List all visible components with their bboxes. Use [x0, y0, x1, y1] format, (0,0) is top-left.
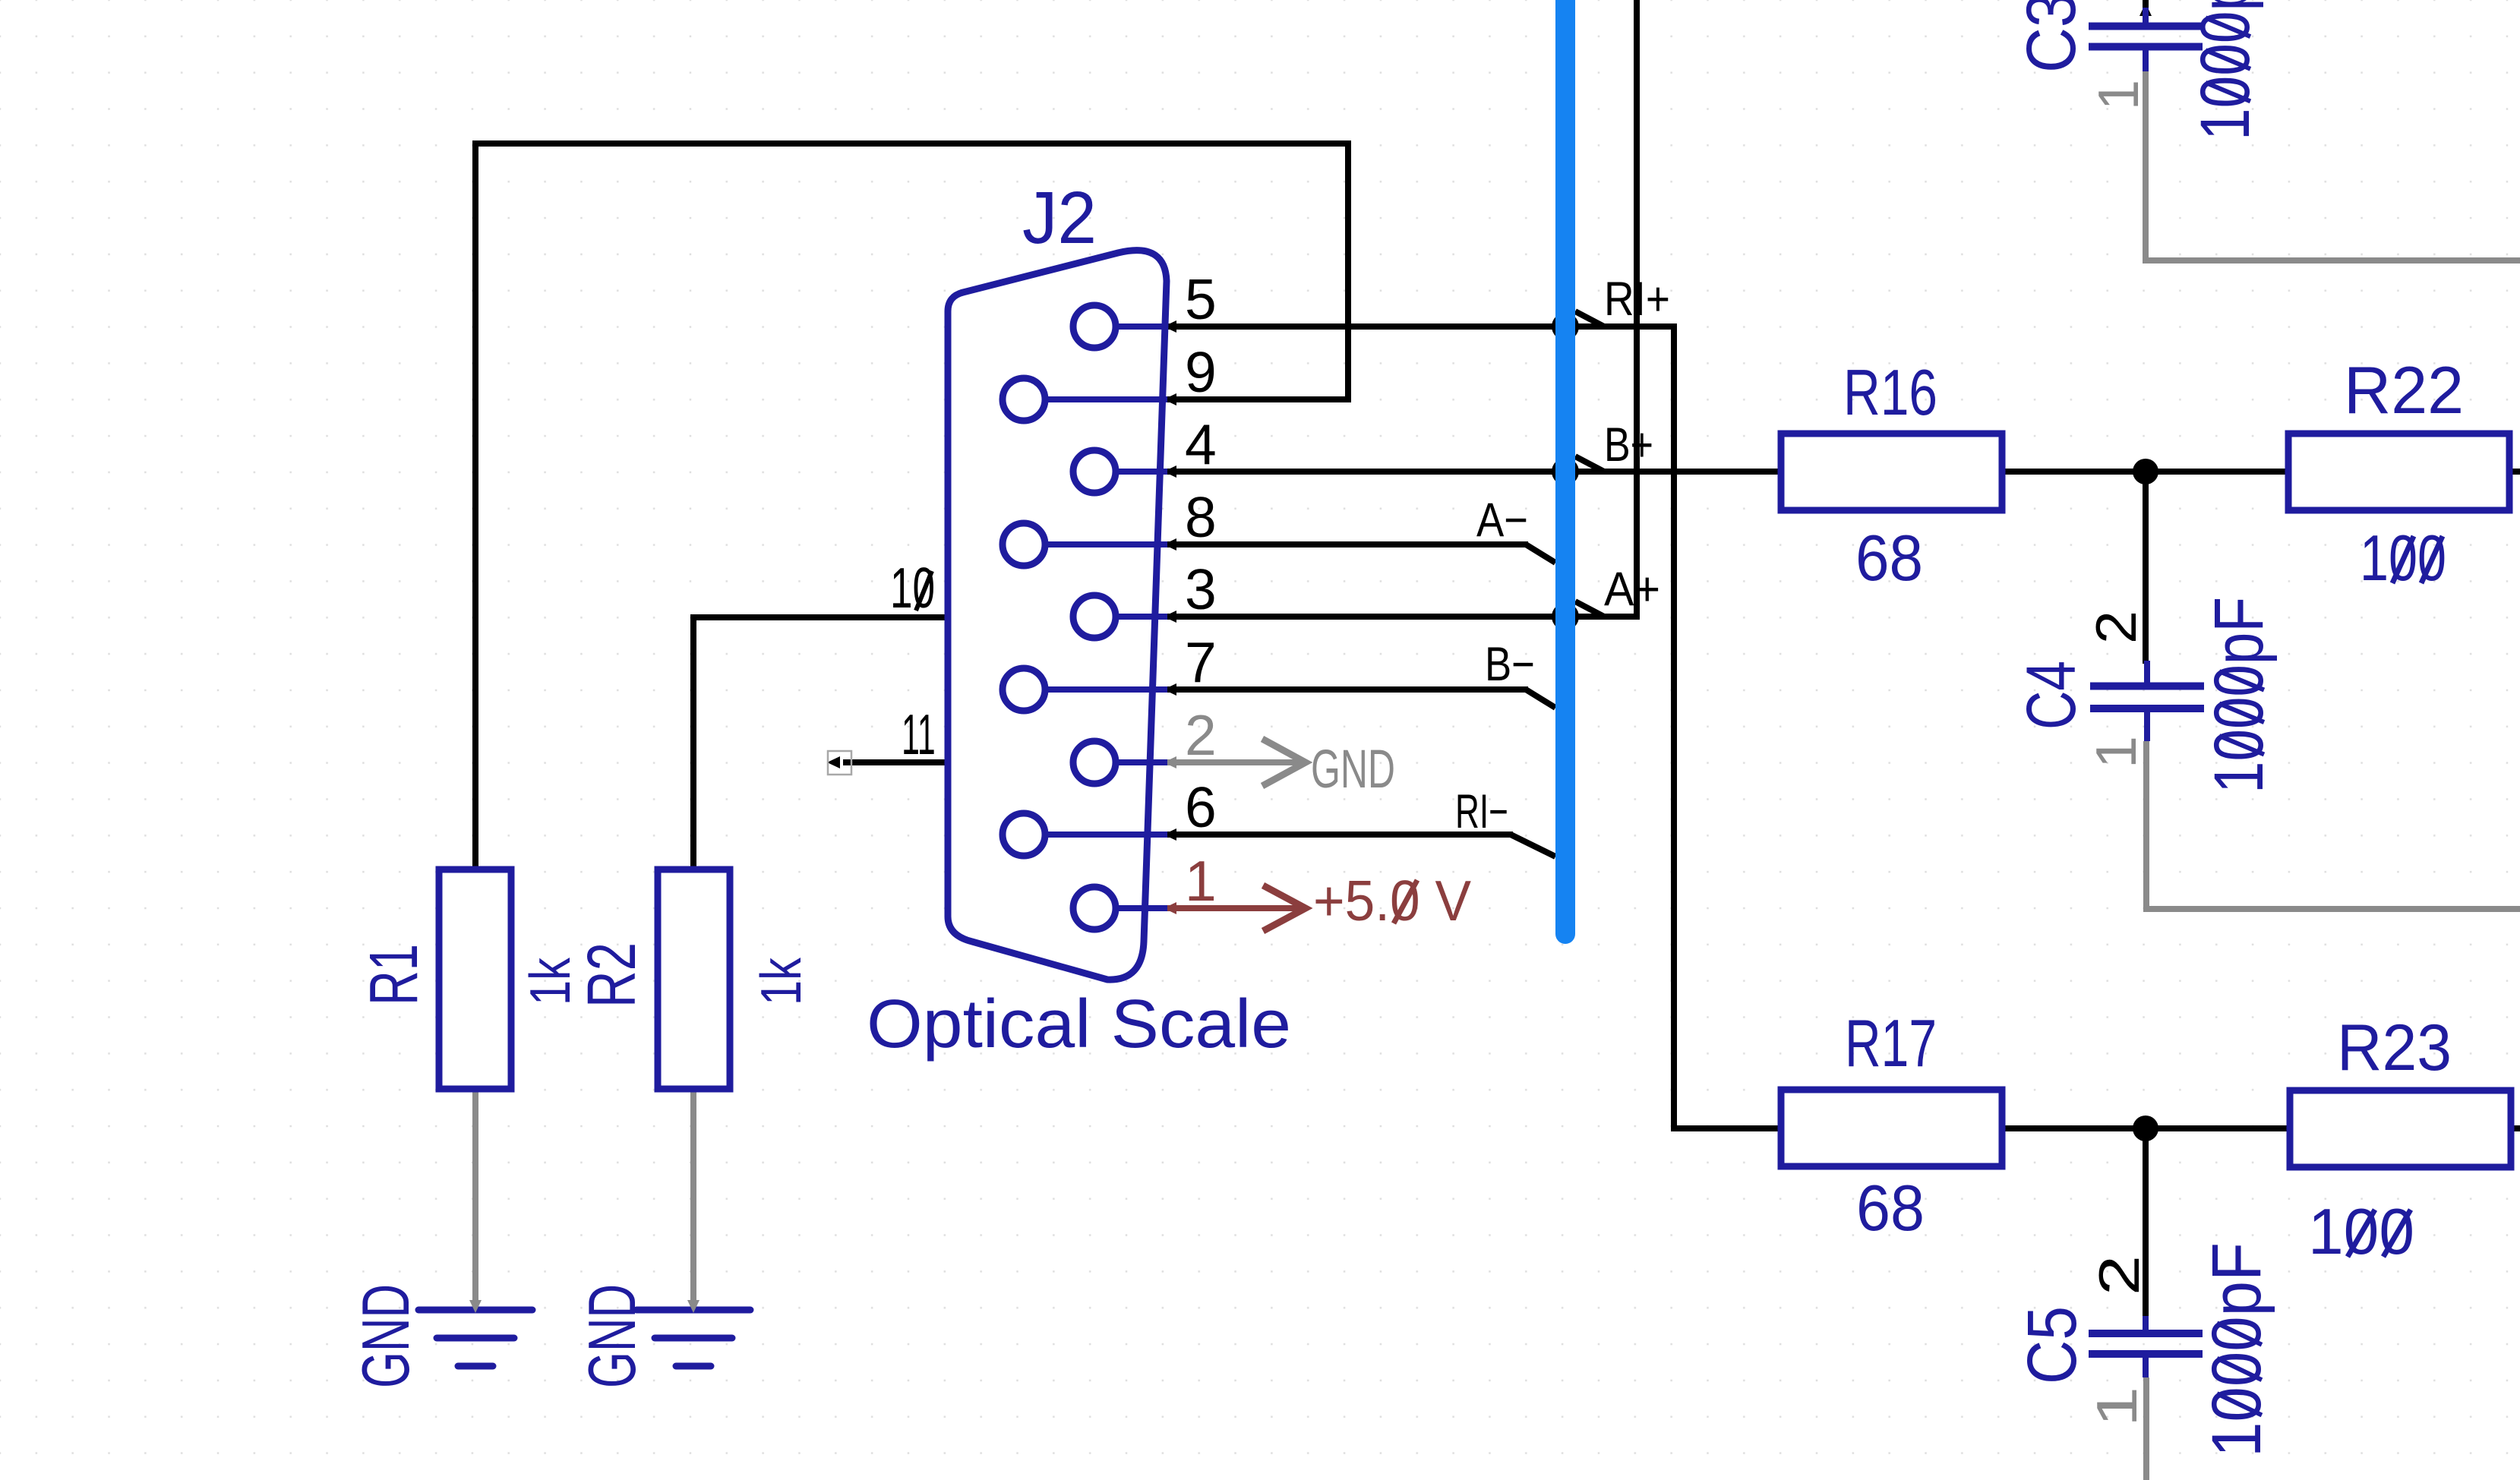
svg-text:B+: B+ [1604, 418, 1653, 472]
svg-text:C4: C4 [2013, 661, 2090, 730]
wire pin 10 to R2 [690, 614, 948, 873]
ground GND symbol under R2 [636, 1300, 750, 1366]
J2 pin 11 number [902, 703, 936, 766]
svg-text:1: 1 [2085, 736, 2149, 768]
J2 pin 3 number [1185, 557, 1217, 621]
no-connect square pin 11 [828, 751, 851, 775]
J2 pin 9 circle and lead [1003, 378, 1167, 421]
C4 pin 1 number [2085, 736, 2149, 768]
resistor R23 [2290, 1090, 2511, 1167]
svg-text:R17: R17 [1845, 1007, 1937, 1081]
resistor R16 [1781, 434, 2002, 510]
J2 pin 4 circle and lead [1073, 450, 1167, 493]
bus entry A- [1526, 544, 1555, 563]
GND label (R1) [349, 1284, 423, 1388]
wire C5 pin1 down (gray) [2143, 1377, 2149, 1480]
svg-text:9: 9 [1185, 340, 1217, 404]
svg-text:B−: B− [1485, 638, 1535, 691]
svg-text:R2: R2 [573, 942, 649, 1008]
net label B- [1485, 638, 1535, 691]
R2 refdes label [573, 942, 649, 1008]
resistor R17 [1781, 1090, 2002, 1166]
svg-text:GND: GND [1311, 739, 1395, 800]
R23 value 100 [2308, 1196, 2414, 1268]
svg-text:6: 6 [1185, 775, 1217, 839]
J2 pin 1 number [1185, 849, 1217, 913]
svg-text:C3: C3 [2012, 0, 2090, 73]
svg-text:R1: R1 [356, 944, 431, 1005]
GND label (R2) [575, 1284, 649, 1388]
R17 value 68 [1856, 1172, 1925, 1244]
svg-text:C5: C5 [2013, 1306, 2091, 1384]
C5 pin 1 number [2086, 1387, 2149, 1427]
bus entry B- [1526, 690, 1555, 708]
net label B+ [1604, 418, 1653, 472]
+5.0V flag label [1313, 869, 1471, 932]
svg-text:1: 1 [2086, 1387, 2149, 1427]
wire pin 7 to bus (B-) [1164, 683, 1528, 696]
net label A+ [1604, 562, 1660, 615]
C5 refdes label [2013, 1306, 2091, 1384]
capacitor C4 [2090, 661, 2204, 741]
bus entry A+ [1575, 601, 1604, 617]
wire pin 11 stub [827, 756, 948, 768]
resistor R22 [2288, 434, 2509, 510]
GND flag arrow [1262, 739, 1306, 786]
resistor R1 [439, 869, 511, 1089]
wire pin 6 to bus (RI-) [1164, 828, 1513, 841]
svg-text:2: 2 [1185, 703, 1217, 767]
svg-text:GND: GND [575, 1284, 649, 1388]
svg-text:J2: J2 [1022, 177, 1097, 259]
J2 pin 7 number [1185, 630, 1217, 694]
svg-text:2: 2 [2088, 1255, 2152, 1295]
node RI+ junction on bus [1552, 313, 1579, 340]
+5.0V flag arrow [1263, 885, 1306, 931]
C5 pin 2 number [2088, 1255, 2152, 1295]
svg-text:Optical Scale: Optical Scale [867, 985, 1291, 1062]
wire pin 9 to corner [1164, 393, 1351, 406]
J2 pin 2 circle and lead [1073, 741, 1167, 784]
J2 refdes label [1022, 177, 1097, 259]
node junction R17/R23/C5 [2133, 1116, 2158, 1141]
svg-text:R22: R22 [2344, 353, 2464, 428]
svg-text:1: 1 [2086, 80, 2151, 110]
wire B+ bus to R16 [1565, 469, 1781, 475]
svg-text:A−: A− [1476, 494, 1528, 547]
R22 value 100 [2360, 522, 2446, 595]
C4 pin 2 number [2085, 611, 2149, 644]
C4 value 1000pF [2199, 597, 2277, 794]
net label RI- [1455, 784, 1508, 838]
wire C3 pin1 to right edge (gray) [2146, 71, 2520, 260]
wire pin 5 to bus (RI+) [1164, 320, 1565, 333]
wire R2 to GND (gray) [690, 1089, 696, 1308]
svg-text:7: 7 [1185, 630, 1217, 694]
capacitor C3 [2089, 8, 2203, 71]
C5 value 1000pF [2196, 1242, 2275, 1457]
svg-text:8: 8 [1185, 485, 1217, 549]
GND flag label [1311, 739, 1395, 800]
R22 refdes label [2344, 353, 2464, 428]
J2 pin 5 circle and lead [1073, 305, 1167, 348]
svg-text:GND: GND [349, 1284, 423, 1388]
wire pin 4 to bus (B+) [1164, 465, 1565, 478]
J2 pin 8 number [1185, 485, 1217, 549]
node B+ junction on bus [1552, 458, 1579, 485]
capacitor C5 [2089, 1316, 2203, 1377]
wire vertical down to pin 9 row [1345, 144, 1351, 402]
svg-text:RI−: RI− [1455, 784, 1508, 838]
R16 refdes label [1843, 357, 1937, 429]
wire junction down to C5 [2143, 1128, 2149, 1319]
J2 value label Optical Scale [867, 985, 1291, 1062]
svg-text:1000pF: 1000pF [2199, 597, 2277, 794]
J2 pin 1 circle and lead [1073, 887, 1167, 929]
C4 refdes label [2013, 661, 2090, 730]
wire R1 to GND (gray) [472, 1089, 478, 1308]
R23 refdes label [2337, 1011, 2452, 1084]
wire junction down to C4 [2143, 472, 2149, 664]
wire R22 right stub [2510, 469, 2520, 475]
J2 pin 7 circle and lead [1003, 668, 1167, 711]
wire pin 3 to bus (A+) [1164, 611, 1565, 623]
wire pin 2 to GND flag (gray) [1164, 756, 1306, 768]
svg-text:1000pF: 1000pF [2185, 0, 2263, 140]
wire junction to R23 [2146, 1125, 2290, 1131]
svg-text:1k: 1k [750, 958, 813, 1005]
J2 pin 6 circle and lead [1003, 813, 1167, 856]
C3 value 1000pF [2185, 0, 2263, 140]
C3 refdes label [2012, 0, 2090, 73]
J2 pin 10 number [890, 556, 935, 620]
J2 pin 3 circle and lead [1073, 595, 1167, 638]
connector J2 body (DB9, Optical Scale) [948, 251, 1167, 980]
J2 pin 2 number [1185, 703, 1217, 767]
resistor R2 [658, 869, 730, 1089]
svg-text:1000pF: 1000pF [2196, 1242, 2275, 1457]
J2 pin 4 number [1185, 412, 1217, 476]
R16 value 68 [1855, 522, 1923, 595]
node A+ junction on bus [1552, 603, 1579, 630]
svg-text:A+: A+ [1604, 562, 1660, 615]
wire A+ right of bus up to top edge [1565, 0, 1637, 620]
svg-text:R23: R23 [2337, 1011, 2452, 1084]
bus entry RI+ [1575, 311, 1604, 327]
svg-text:68: 68 [1856, 1172, 1925, 1244]
svg-text:10: 10 [890, 556, 935, 620]
svg-text:68: 68 [1855, 522, 1923, 595]
bus entry RI- [1511, 835, 1555, 857]
net label RI+ [1604, 273, 1670, 326]
wire C3 top stub [2139, 0, 2152, 16]
svg-text:1: 1 [1185, 849, 1217, 913]
wire R1 top to pin 9 net, corner (626,189) [472, 140, 1351, 873]
R1 value 1k [519, 958, 583, 1005]
J2 pin 5 number [1185, 267, 1217, 331]
svg-text:11: 11 [902, 703, 936, 766]
R17 refdes label [1845, 1007, 1937, 1081]
wire R23 right stub [2510, 1125, 2520, 1131]
J2 pin 9 number [1185, 340, 1217, 404]
wire pin 8 to bus (A-) [1164, 538, 1528, 551]
bus (vertical blue) [1555, 0, 1575, 934]
svg-text:R16: R16 [1843, 357, 1937, 429]
wire C4 pin1 to right edge (gray) [2146, 741, 2520, 909]
svg-text:2: 2 [2085, 611, 2149, 644]
svg-text:+5.0 V: +5.0 V [1313, 869, 1471, 932]
node junction R16/R22/C4 [2133, 459, 2158, 484]
R1 refdes label [356, 944, 431, 1005]
svg-text:3: 3 [1185, 557, 1217, 621]
wire pin 1 to +5.0V flag (red) [1164, 902, 1306, 914]
svg-text:5: 5 [1185, 267, 1217, 331]
J2 pin 8 circle and lead [1003, 523, 1167, 566]
J2 pin 6 number [1185, 775, 1217, 839]
ground GND symbol under R1 [418, 1300, 532, 1366]
wire RI+ right of bus down to R17 [1565, 323, 1781, 1131]
svg-text:RI+: RI+ [1604, 273, 1670, 326]
net label A- [1476, 494, 1528, 547]
svg-text:4: 4 [1185, 412, 1217, 476]
wire junction to R22 [2146, 469, 2290, 475]
C3 pin 1 number [2086, 80, 2151, 110]
bus entry B+ [1575, 456, 1604, 472]
R2 value 1k [750, 958, 813, 1005]
wire R17 to junction [2002, 1125, 2146, 1131]
wire R16 to junction [2002, 469, 2146, 475]
